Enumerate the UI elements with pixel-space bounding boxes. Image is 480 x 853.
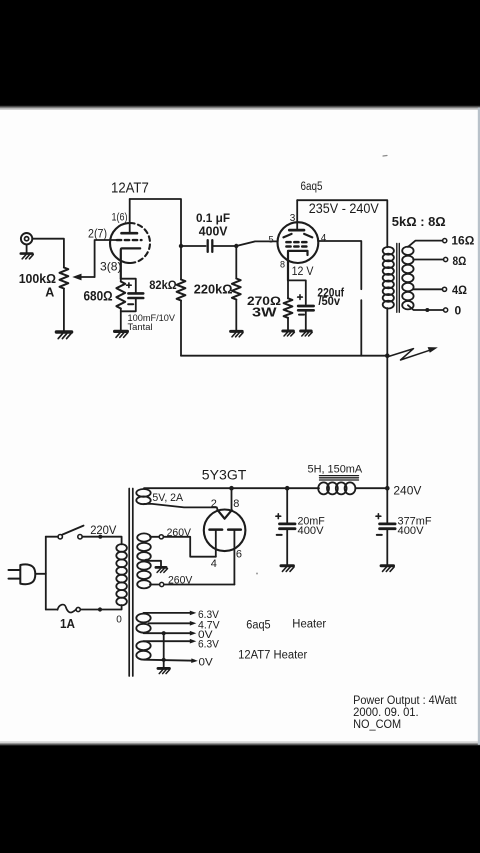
svg-text:/50v: /50v bbox=[318, 296, 340, 308]
svg-text:3W: 3W bbox=[252, 305, 277, 320]
svg-text:400V: 400V bbox=[398, 525, 425, 537]
triode U1a 12AT7 envelope (half dashed) bbox=[110, 223, 150, 263]
T2 heater winding A bbox=[136, 614, 150, 633]
wire jack to pot top bbox=[32, 239, 64, 268]
svg-text:8: 8 bbox=[280, 260, 285, 270]
node primary bottom dot bbox=[98, 607, 102, 611]
svg-text:0V: 0V bbox=[199, 656, 214, 668]
T2 heater winding B bbox=[136, 641, 150, 659]
pin4 stem bbox=[215, 530, 217, 557]
svg-text:5Y3GT: 5Y3GT bbox=[202, 467, 247, 482]
terminal 8Ω bbox=[444, 257, 448, 261]
node 20mF dot bbox=[285, 486, 290, 491]
svg-text:3(8): 3(8) bbox=[100, 260, 122, 274]
B+ bus wire bbox=[181, 355, 387, 357]
wire switch to primary bbox=[82, 537, 121, 545]
5Y3GT anode pin4 bar bbox=[210, 528, 223, 531]
capacitor C3 220uf/50v plates bbox=[298, 306, 313, 310]
svg-text:8: 8 bbox=[233, 498, 239, 510]
svg-text:6.3V: 6.3V bbox=[198, 639, 220, 651]
C3 plus sign bbox=[298, 295, 303, 300]
switch S1 contacts bbox=[58, 535, 82, 539]
C1 bottom lead bbox=[121, 298, 136, 311]
switch lever bbox=[62, 526, 83, 535]
tap wire 16Ω bbox=[408, 241, 443, 247]
svg-text:2(7): 2(7) bbox=[88, 229, 107, 241]
top bar soft edge bbox=[0, 105, 480, 110]
wire screen pin4 bbox=[318, 241, 361, 289]
heater 0V tie wire bbox=[163, 633, 165, 667]
terminal 260V upper bbox=[159, 535, 163, 539]
bottom bar soft edge bbox=[0, 742, 480, 746]
HV bottom lead to terminal bbox=[150, 584, 160, 586]
C1 minus sign bbox=[128, 303, 133, 305]
wire to fuse bbox=[46, 609, 58, 611]
svg-text:5: 5 bbox=[268, 234, 273, 245]
node 0V tie dot upper bbox=[162, 631, 166, 635]
fuse contact circle bbox=[76, 607, 80, 611]
C1 plus sign bbox=[127, 283, 132, 288]
ground (jack) bbox=[21, 254, 33, 259]
svg-text:82kΩ: 82kΩ bbox=[149, 278, 177, 292]
12AT7 grid dashes bbox=[117, 239, 142, 241]
bottom black bar bbox=[0, 746, 480, 853]
heater lead 4.7V tap bbox=[149, 621, 197, 626]
C3 minus sign bbox=[299, 314, 304, 316]
svg-text:0: 0 bbox=[116, 614, 122, 625]
svg-text:1A: 1A bbox=[60, 616, 76, 631]
heater lead 6.3V (B top) bbox=[144, 639, 197, 644]
heater lead 0V (A bottom) bbox=[144, 631, 197, 636]
wire split vertical bbox=[45, 537, 47, 610]
svg-text:2: 2 bbox=[211, 498, 217, 510]
B+ rail wire bbox=[144, 487, 319, 489]
resistor R3 82kΩ bbox=[177, 280, 186, 301]
svg-text:Heater: Heater bbox=[292, 619, 326, 631]
ground (cathode network) bbox=[115, 331, 128, 337]
C2 right lead bbox=[212, 245, 236, 247]
capacitor C1 100mF/10V tantal branch box bbox=[121, 279, 136, 293]
wire R4 to ground bbox=[235, 300, 237, 331]
12AT7 plate bar pin1(6) bbox=[122, 232, 138, 235]
svg-text:16Ω: 16Ω bbox=[451, 233, 474, 247]
6aq5 grid g2 dashes bbox=[286, 245, 307, 248]
svg-text:0.1 μF: 0.1 μF bbox=[196, 211, 230, 225]
node coupling junction dot bbox=[234, 244, 238, 248]
5Y3GT pin8 lead bbox=[231, 488, 233, 510]
wire coupling node to 6aq5 grid bbox=[236, 241, 277, 246]
svg-text:A: A bbox=[45, 286, 54, 300]
tap wire 0 bbox=[408, 305, 444, 310]
svg-text:220kΩ: 220kΩ bbox=[194, 282, 233, 297]
right edge scan shadow line bbox=[478, 108, 480, 745]
choke L1 core lines bbox=[320, 476, 359, 480]
heater lead 0V (B bottom) bbox=[144, 658, 198, 663]
5Y3GT filament V bbox=[218, 510, 232, 519]
wire node down to R3 bbox=[180, 246, 182, 280]
T2 5V 2A winding bbox=[136, 489, 150, 504]
svg-text:4: 4 bbox=[321, 233, 327, 244]
svg-text:6aq5: 6aq5 bbox=[246, 619, 270, 631]
B+ rail wire right of choke bbox=[356, 487, 388, 489]
svg-text:3: 3 bbox=[290, 213, 296, 224]
C3 bottom lead bbox=[305, 310, 307, 330]
node 12V cathode tee bbox=[288, 280, 306, 304]
power transformer T2 core bbox=[129, 489, 133, 677]
T2 primary winding bbox=[116, 544, 127, 605]
svg-text:680Ω: 680Ω bbox=[84, 289, 113, 304]
wire 12AT7 plate to coupling node bbox=[130, 199, 181, 246]
12AT7 plate lead up bbox=[129, 199, 131, 233]
svg-text:2000. 09. 01.: 2000. 09. 01. bbox=[353, 707, 419, 719]
C4 bottom lead bbox=[286, 529, 288, 565]
wire pot bottom to ground bbox=[63, 289, 65, 332]
C5 plus sign bbox=[376, 514, 381, 519]
resistor R5 270Ω 3W bbox=[284, 298, 293, 318]
resistor R4 220kΩ bbox=[232, 279, 241, 300]
top black bar bbox=[0, 0, 480, 105]
svg-text:5kΩ : 8Ω: 5kΩ : 8Ω bbox=[392, 214, 446, 229]
5Y3GT anode pin6 bar bbox=[228, 528, 241, 531]
capacitor C2 0.1uF coupling leads bbox=[181, 245, 206, 247]
ground (C5) bbox=[381, 566, 394, 572]
svg-text:1(6): 1(6) bbox=[112, 212, 128, 224]
svg-text:12AT7 Heater: 12AT7 Heater bbox=[238, 650, 307, 662]
svg-text:260V: 260V bbox=[167, 527, 192, 539]
pin6 stem bbox=[233, 530, 235, 585]
node 0 tap dot bbox=[425, 308, 429, 312]
output transformer T1 primary winding bbox=[383, 247, 394, 309]
svg-text:5H, 150mA: 5H, 150mA bbox=[308, 463, 363, 475]
terminal 16Ω bbox=[443, 239, 447, 243]
ground (R4) bbox=[231, 331, 243, 336]
annotation squiggle arrow bbox=[389, 347, 438, 360]
node 240V dot bbox=[385, 486, 390, 491]
node rectifier output dot bbox=[229, 486, 234, 491]
wire fuse to primary bottom bbox=[80, 605, 121, 610]
heater lead 6.3V (A top) bbox=[144, 611, 197, 616]
node bus junction dot bbox=[385, 353, 390, 358]
wire to switch bbox=[46, 536, 58, 538]
rectifier U3 5Y3GT envelope bbox=[204, 510, 246, 552]
C2 plates bbox=[208, 240, 213, 252]
wire 260V upper to pin4 bbox=[163, 537, 215, 557]
capacitor C4 20mF top lead bbox=[286, 488, 288, 523]
svg-text:260V: 260V bbox=[168, 575, 193, 587]
wire wiper to grid bbox=[95, 240, 117, 277]
input jack J1 bbox=[21, 233, 32, 253]
svg-text:4: 4 bbox=[211, 558, 217, 570]
svg-text:NO_COM: NO_COM bbox=[353, 719, 401, 731]
svg-text:4Ω: 4Ω bbox=[452, 283, 467, 297]
svg-text:400V: 400V bbox=[199, 224, 228, 238]
6aq5 plate lead bbox=[296, 200, 298, 230]
svg-text:5V, 2A: 5V, 2A bbox=[152, 492, 183, 504]
C4 plates bbox=[280, 524, 296, 529]
HV center tap dot bbox=[145, 559, 149, 563]
svg-text:100kΩ: 100kΩ bbox=[19, 271, 56, 286]
node plate junction dot bbox=[179, 244, 183, 248]
svg-text:Tantal: Tantal bbox=[128, 322, 153, 332]
node primary top dot bbox=[98, 535, 102, 539]
svg-text:6aq5: 6aq5 bbox=[301, 181, 323, 193]
wire center tap to ground bbox=[147, 561, 162, 567]
C5 plates bbox=[380, 524, 396, 529]
svg-text:235V - 240V: 235V - 240V bbox=[309, 201, 379, 216]
wire 680 bottom to ground bbox=[120, 309, 122, 331]
C5 bottom lead bbox=[386, 529, 388, 565]
svg-text:220V: 220V bbox=[90, 525, 117, 537]
wire 6aq5 plate to output transformer bbox=[297, 200, 387, 247]
terminal 260V lower bbox=[160, 582, 164, 586]
wire R3 to B+ bus bbox=[180, 301, 182, 356]
pot wiper arrow bbox=[72, 274, 94, 281]
pentode U2 6aq5 envelope bbox=[278, 222, 319, 263]
scan speck upper bbox=[383, 155, 387, 158]
fuse F1 1A bbox=[58, 605, 76, 613]
tap wire 8Ω bbox=[413, 259, 443, 261]
wire R5 to ground bbox=[287, 318, 289, 330]
wire cathode to R5 bbox=[287, 280, 289, 298]
svg-text:Power Output : 4Watt: Power Output : 4Watt bbox=[353, 695, 457, 707]
C4 minus sign bbox=[277, 534, 282, 536]
C5 minus sign bbox=[377, 534, 382, 536]
ground (C3) bbox=[301, 331, 313, 336]
5Y3GT pin2 wire from 5V winding bbox=[144, 504, 218, 510]
node cathode junction bbox=[120, 279, 122, 282]
T2 HV winding bbox=[137, 533, 151, 588]
svg-text:0: 0 bbox=[455, 304, 462, 318]
ground (R5) bbox=[283, 331, 295, 336]
C4 plus sign bbox=[276, 514, 281, 519]
tap wire 4Ω bbox=[413, 288, 442, 290]
6aq5 cathode pin8 and lead bbox=[288, 251, 308, 281]
choke L1 loops bbox=[318, 482, 355, 494]
T1 core bbox=[397, 244, 400, 313]
capacitor C5 377mF top lead bbox=[386, 488, 388, 523]
svg-text:12AT7: 12AT7 bbox=[111, 181, 149, 197]
6aq5 plate bar pin3 bbox=[289, 229, 304, 232]
svg-text:8Ω: 8Ω bbox=[453, 254, 467, 268]
svg-text:12 V: 12 V bbox=[292, 266, 314, 278]
wire node down to R4 bbox=[235, 246, 237, 279]
HV top lead to terminal bbox=[150, 536, 159, 538]
svg-text:400V: 400V bbox=[298, 525, 325, 537]
wire T1 primary bottom down through bus to 240V node bbox=[386, 308, 388, 488]
terminal 0 bbox=[444, 308, 448, 312]
wire screen lower segment (break in scan) bbox=[360, 300, 362, 356]
ground (pot) bbox=[56, 332, 71, 339]
svg-text:6: 6 bbox=[236, 549, 242, 561]
12AT7 cathode pin3(8) bbox=[121, 248, 140, 278]
schematic paper background bbox=[0, 110, 480, 742]
6aq5 grid g1 dashes bbox=[286, 241, 307, 244]
node 0V tie dot lower bbox=[162, 658, 166, 662]
wire 260V lower to pin6 bbox=[164, 584, 235, 586]
terminal 4Ω bbox=[442, 287, 446, 291]
ground (C4) bbox=[281, 566, 294, 572]
scan speck lower bbox=[256, 573, 258, 575]
AC plug prongs bbox=[9, 570, 21, 579]
potentiometer R1 100kΩ bbox=[60, 268, 69, 289]
6aq5 beam plates bbox=[283, 234, 312, 238]
svg-text:240V: 240V bbox=[393, 486, 421, 498]
C1 plates bbox=[128, 293, 143, 298]
resistor R2 680Ω bbox=[116, 282, 125, 309]
wire plug to split bbox=[35, 573, 46, 575]
ground (HV center tap) bbox=[156, 567, 168, 572]
AC plug body bbox=[20, 564, 35, 584]
T1 secondary winding bbox=[402, 247, 413, 310]
ground (heater tie) bbox=[158, 668, 170, 673]
